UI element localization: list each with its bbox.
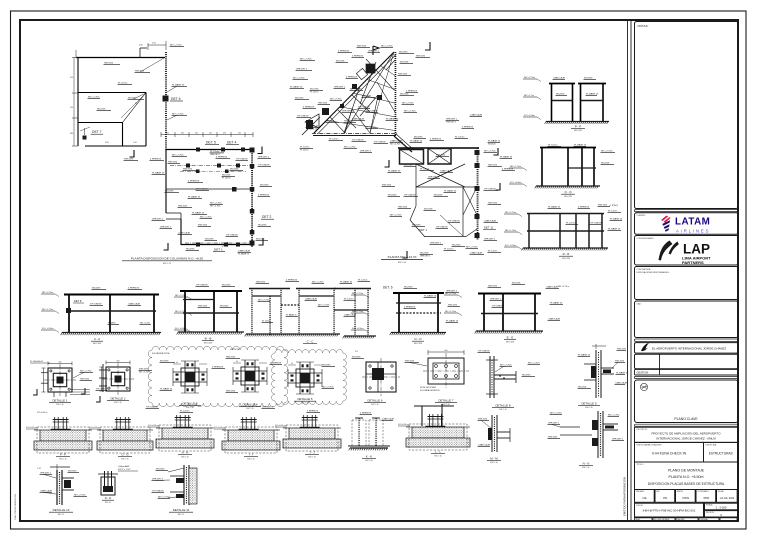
foundation section I - I anchor bolts [242,417,244,430]
L-L extra posts [421,406,423,426]
notas box bottom double rule [635,210,739,212]
aeropuerto strip double rule [635,339,739,341]
svg-text:N.O.-0.50 m: N.O.-0.50 m [26,427,37,429]
svg-text:LATAM: LATAM [675,217,710,228]
svg-text:SECCION: SECCION [562,258,570,260]
svg-text:60: 60 [291,363,293,365]
detail DETALLE 5 flange bolts [291,375,294,377]
foundation section H - H hatch [156,427,162,429]
svg-text:2-4: 2-4 [355,351,358,353]
detail DETALLE 3 flange bolts [176,374,179,376]
svg-text:ORIGINAL:: ORIGINAL: [700,518,709,521]
svg-text:A - A: A - A [94,337,100,341]
section A-A middle row [41,287,161,345]
plan2 lower boundary polygon [410,206,416,220]
detail DETALLE 4 small dims [233,362,241,364]
svg-text:NIV +2.70 m: NIV +2.70 m [558,286,570,288]
svg-text:ESC 1:10: ESC 1:10 [59,458,66,460]
svg-text:REV:: REV: [656,491,660,493]
section B - B ground hatch [178,331,244,333]
section B - B top beam [180,290,242,292]
section A - A ground hatch [62,332,161,334]
foundation section F - F hatch [34,429,40,431]
plan1 DET 6 column and label [163,96,169,102]
svg-text:C/ANCLAJE: C/ANCLAJE [484,219,497,222]
svg-text:L - L: L - L [435,450,441,454]
svg-text:PL.BASE 25: PL.BASE 25 [500,155,513,158]
revision cloud around detalle 3 and 4 [148,346,288,406]
foundation section J - J anchor bolts [303,415,305,428]
svg-text:ESC 1:10: ESC 1:10 [121,458,128,460]
svg-text:ESC 1:10: ESC 1:10 [365,460,372,462]
svg-text:NIV +2.70m: NIV +2.70m [42,292,53,294]
detalle 7 large plate [405,350,470,406]
svg-text:DETALLE 10: DETALLE 10 [53,508,70,512]
svg-text:M - M: M - M [490,457,498,461]
plan1 columns along top edge [196,148,200,152]
plan2 truss parallel joists [381,66,396,76]
svg-text:SECCION: SECCION [414,343,423,345]
detalle 1 grid lines [41,372,48,374]
svg-text:N.O.-0.50 m: N.O.-0.50 m [398,424,409,426]
svg-text:PL.BASE 25: PL.BASE 25 [160,387,173,390]
plan2 section flags [425,42,430,50]
detalle 11 wall connection [152,465,198,516]
svg-text:P - P: P - P [575,125,581,129]
foundation section H - H anchor bolts [176,415,178,428]
svg-text:DET 4: DET 4 [227,141,236,145]
svg-text:NIL: NIL [643,496,648,500]
svg-text:N.O. -0.50m: N.O. -0.50m [352,328,364,330]
svg-text:SECCION: SECCION [564,196,572,198]
plan1 hatched column line right [165,52,167,53]
svg-text:DET 7: DET 7 [92,130,102,134]
plan1 dashdot bottom line [185,242,250,244]
svg-text:450: 450 [223,133,226,135]
foundation section L - L base plate [425,426,445,428]
svg-text:DETALLE 2: DETALLE 2 [110,397,125,401]
svg-text:SECCION: SECCION [574,130,582,132]
cad box [635,301,739,338]
svg-text:PL.BASE 25: PL.BASE 25 [410,139,423,142]
svg-text:450: 450 [195,133,198,135]
notas box [635,22,739,209]
detail DETALLE 1 dimensions [48,363,72,365]
svg-text:NIV +2.70m: NIV +2.70m [139,371,150,373]
detail DETALLE 3 small dims [173,363,181,365]
svg-text:NIV +1.70m: NIV +1.70m [510,166,521,168]
title block left double line [627,20,629,521]
foundation section L - L anchor bolts [428,414,430,427]
plan view planta disposicion de columnas N.O. +8.50 [70,41,274,265]
svg-text:NOTA: VER PLANO: NOTA: VER PLANO [420,386,437,389]
svg-text:PL.BASE 25: PL.BASE 25 [446,319,459,322]
contratista box [635,267,739,300]
svg-text:G - G: G - G [121,453,129,457]
detalle 8 beam elevation [478,350,541,411]
foundation section H - H concrete block [162,428,208,439]
svg-text:1 : 3 000: 1 : 3 000 [716,506,727,510]
plan1 columns along bottom [196,243,200,247]
section E - E ground hatch [476,330,543,332]
foundation section L - L dashed footing outline [409,424,467,450]
svg-text:ESC 1:10: ESC 1:10 [186,407,193,409]
svg-text:NIV +1.70m: NIV +1.70m [42,309,53,311]
detalle 2 [96,361,153,405]
detail DETALLE 4 cruciform plate [245,371,255,381]
svg-text:DET 6: DET 6 [171,97,181,101]
svg-text:D - D: D - D [105,496,112,500]
detalle 9 column connection [578,344,628,409]
svg-text:DFW: DFW [683,496,690,500]
svg-text:N.O. -0.50m: N.O. -0.50m [42,328,54,330]
svg-text:VER DET.1: VER DET.1 [420,255,430,257]
svg-text:DETALLE 4: DETALLE 4 [242,403,257,407]
svg-text:NOTAS:: NOTAS: [638,24,649,28]
plan1 lower rectangle top dimension row [161,134,253,136]
svg-text:450: 450 [238,133,241,135]
svg-text:GSA-TODOS DERECHOS: GSA-TODOS DERECHOS [14,493,17,520]
foundation section L - L concrete block [412,427,464,438]
plan1 interior line 2 [166,188,252,190]
svg-text:ESC 1:10: ESC 1:10 [490,462,497,464]
plan2 truss node gussets [366,64,375,73]
plan1 north/section flags [130,150,135,157]
plan1 top dimension ticks [75,50,77,58]
svg-text:60: 60 [236,361,238,363]
foundation section I - I base plate [239,429,259,431]
svg-text:C/ANCLAJE: C/ANCLAJE [382,417,395,420]
detalle 1 flags [33,389,37,395]
svg-text:C/ANCLAJE: C/ANCLAJE [478,443,491,446]
foundation section G - G hatch [97,429,103,431]
foundation section J - J hatch [283,427,289,429]
detail DETALLE 1 center lines [44,379,76,381]
aeropuerto internacional strip [635,343,739,354]
svg-text:B - B: B - B [205,337,212,341]
svg-text:PROYECTO:: PROYECTO: [637,429,649,431]
svg-text:VER NOTA 3: VER NOTA 3 [230,348,240,351]
plan2 north flag top [373,46,379,55]
section A - A top beam [64,294,159,296]
section B-B hatched right column [236,292,238,293]
plan2 columns on right wall [475,150,480,155]
svg-text:24.JUL.2024: 24.JUL.2024 [720,497,735,500]
svg-text:PL.BASE 25: PL.BASE 25 [238,252,250,255]
svg-text:+2 (PISO): +2 (PISO) [609,205,618,207]
svg-text:AIRLINES: AIRLINES [676,228,710,233]
foundation section H - H dashed footing outline [159,425,211,451]
revision box [705,511,739,517]
svg-text:ESC 1:10: ESC 1:10 [371,404,378,406]
svg-text:NIV +1.70m: NIV +1.70m [445,311,456,313]
firmas row [635,490,655,503]
svg-text:DETALLE 7: DETALLE 7 [438,399,453,403]
foundation section F - F base plate [51,429,71,431]
svg-text:PARTNERS: PARTNERS [682,260,704,265]
section D - D columns [398,293,400,333]
svg-text:ESC 1:5: ESC 1:5 [105,502,111,504]
svg-text:280: 280 [70,133,73,135]
plan2 left corner dark node [322,108,329,115]
detail DETALLE 4 flange bolts [236,373,239,375]
svg-text:C/ANCLAJE: C/ANCLAJE [440,169,453,172]
concesionario box with LAP logo [635,236,739,266]
svg-text:PL.BASE 25: PL.BASE 25 [574,143,587,146]
detail DETALLE 3 cruciform plate [185,372,195,382]
svg-text:PLANTA DISPOSICION DE COLUMNAS: PLANTA DISPOSICION DE COLUMNAS N.O. +8.5… [131,256,204,260]
detail DETALLE 5 small dims [288,364,296,366]
svg-text:PROYECTO DE AMPLIACIÓN DEL AER: PROYECTO DE AMPLIACIÓN DEL AEROPUERTO [651,431,721,436]
svg-text:LAP: LAP [683,242,710,257]
svg-text:VER DET.1: VER DET.1 [210,154,220,156]
plano clave double rule [635,376,739,378]
codigo plano row [635,503,704,517]
section B - B columns [184,291,186,332]
svg-text:FECHA:: FECHA: [718,490,725,493]
svg-text:DETALLE 5: DETALLE 5 [297,397,312,401]
detalle 4 [226,348,283,410]
foundation detail H-H [148,410,214,458]
svg-text:PL.BASE 25: PL.BASE 25 [444,189,457,192]
svg-text:DETALLE 1: DETALLE 1 [52,399,67,403]
svg-text:ESC 1:10: ESC 1:10 [114,402,121,404]
svg-text:DETALLE 9: DETALLE 9 [581,402,596,406]
svg-text:H - H: H - H [182,451,189,455]
plan2 truss tilted gusset 2 [356,68,367,79]
svg-text:NIV +2.70m: NIV +2.70m [445,293,456,295]
foundation detail K-K twin columns [348,412,395,462]
detalle 2 flag [96,396,100,402]
svg-text:ESC 1:10: ESC 1:10 [308,456,315,458]
section A - A columns [68,295,70,333]
svg-text:C/ANCLAJE: C/ANCLAJE [546,285,559,288]
svg-text:ESC 1:10: ESC 1:10 [56,404,63,406]
bottom mini row [635,518,653,521]
svg-text:NIV +1.70m: NIV +1.70m [505,230,516,232]
detail DETALLE 2 dimensions [106,362,130,364]
detail DETALLE 5 cruciform plate [300,373,310,383]
section A - A mid beam [67,310,156,312]
svg-text:NIV +2.70m: NIV +2.70m [524,77,535,79]
svg-text:DIBUJADO:: DIBUJADO: [636,490,646,493]
svg-text:GESTION:: GESTION: [637,371,650,375]
svg-text:C/ANCLAJE: C/ANCLAJE [344,313,357,316]
svg-text:DET 8: DET 8 [74,299,82,303]
svg-text:SOLDADURA TIPICA: SOLDADURA TIPICA [152,352,170,355]
svg-text:COORDINADO:: COORDINADO: [697,490,710,493]
svg-text:D - D: D - D [415,337,423,341]
svg-text:INTERNACIONAL JORGE CHÁVEZ - I: INTERNACIONAL JORGE CHÁVEZ - IIMLM [656,437,716,441]
svg-text:NIV +2.70m: NIV +2.70m [210,205,221,207]
plan1 upper outline walls [76,57,165,59]
detalle 5 [288,362,335,405]
plan1 diagonal wall [123,93,147,123]
svg-text:60: 60 [176,362,178,364]
svg-text:PL.BASE 25: PL.BASE 25 [386,117,399,120]
svg-text:C/ANCLAJE: C/ANCLAJE [352,117,365,120]
section A-A hatched right column [153,295,155,296]
svg-text:PL.BASE 25: PL.BASE 25 [172,83,185,86]
foundation section F - F anchor bolts [54,417,56,430]
svg-text:W12X26: W12X26 [488,143,496,145]
svg-text:4.00: 4.00 [105,142,109,144]
svg-text:NIV +1.70m: NIV +1.70m [352,311,363,313]
section Q-Q frame right column [509,143,615,197]
svg-text:NIV +2.70m: NIV +2.70m [505,212,516,214]
cliente box with LATAM logo [635,213,739,235]
detalle 6 [352,351,401,406]
detalle 1 notes [70,389,90,391]
paquete and disciplina row [635,442,704,462]
plan2 braced area top edge [398,147,479,149]
svg-text:C/ANCLAJE: C/ANCLAJE [128,302,141,305]
foundation section F - F concrete block [40,430,86,441]
svg-text:C/ANCLAJE: C/ANCLAJE [615,381,628,384]
svg-text:PD: PD [663,496,667,500]
svg-text:FASE:: FASE: [636,518,641,521]
svg-text:IH04-B-PTN-I-P08-INC-00-HPM-EI: IH04-B-PTN-I-P08-INC-00-HPM-EIC-001 [643,509,696,513]
section C-C multi-bay middle row [245,279,393,343]
svg-text:PL.BASE 25: PL.BASE 25 [388,169,401,172]
plan2 truss zigzag web lower [330,117,345,133]
foundation detail I-I [214,417,280,460]
svg-text:C/ANCLAJE: C/ANCLAJE [40,489,53,492]
svg-text:600: 600 [445,350,448,352]
svg-text:DETALLE 11: DETALLE 11 [173,508,190,512]
svg-text:CODIGO:: CODIGO: [636,505,644,507]
svg-text:DET. 5: DET. 5 [206,141,216,145]
svg-text:PL.BASE 25: PL.BASE 25 [616,371,629,374]
plan1 columns along right wall [250,164,255,169]
plan2 dark panel 1 [400,150,424,165]
svg-text:310: 310 [70,77,73,79]
svg-text:APROB:: APROB: [677,490,684,493]
section E - E mid beam [481,313,538,315]
proyecto box [635,424,739,426]
section D - D ground hatch [391,332,446,334]
LAP logo slash icon [659,241,673,261]
svg-text:ESC 1:10: ESC 1:10 [434,455,441,457]
svg-text:DET 2: DET 2 [262,215,271,219]
svg-text:N.O.-0.50 m: N.O.-0.50 m [214,427,225,429]
svg-text:450: 450 [59,362,62,364]
plan2 dark panel 2 with X [428,149,451,165]
svg-text:CAD:: CAD: [637,303,642,306]
svg-text:PL.BASE 25: PL.BASE 25 [306,127,318,130]
svg-text:DET 1: DET 1 [214,248,223,252]
svg-text:ESPECIALISTAS RESPONSABLES:: ESPECIALISTAS RESPONSABLES: [637,271,670,274]
foundation section I - I concrete block [228,430,274,441]
svg-text:J - J: J - J [309,451,315,455]
svg-text:450: 450 [117,361,120,363]
svg-text:ESC 1:50: ESC 1:50 [398,262,406,264]
plan2 interior X braces [416,164,465,187]
svg-text:ESC 1:10: ESC 1:10 [582,467,589,469]
svg-text:C/ANCLAJE: C/ANCLAJE [470,113,483,116]
detalle 1 [30,361,93,406]
section D - D top beam [393,292,444,294]
svg-text:DET. 6: DET. 6 [383,286,393,290]
foundation section J - J concrete block [289,428,335,439]
plano clave scribble icon [640,383,647,390]
plan2 truss bottom chord dashdot [312,133,397,135]
svg-text:C/ANCLAJE: C/ANCLAJE [553,76,566,79]
escala box [705,503,739,510]
foundation section F - F dashed footing outline [37,427,89,453]
svg-text:K - K: K - K [366,455,372,459]
svg-text:N.O.-0.50 m: N.O.-0.50 m [275,425,286,427]
svg-text:PLANO DE MONTAJE: PLANO DE MONTAJE [668,469,705,473]
svg-text:NO. REV. DE PAGS:: NO. REV. DE PAGS: [654,518,670,521]
svg-text:DETALLE 6: DETALLE 6 [367,399,382,403]
svg-text:II-04 KUNA CHECK IN: II-04 KUNA CHECK IN [652,452,687,456]
svg-text:Ø 1/2" x 1 1/2": Ø 1/2" x 1 1/2" [118,469,131,471]
svg-text:N.O.-0.50m: N.O.-0.50m [524,115,535,117]
plan2 truss inner members fan [344,52,394,133]
detalle 3 [152,352,225,409]
svg-text:450: 450 [166,133,169,135]
svg-text:PL.500x500x25: PL.500x500x25 [30,361,43,363]
svg-text:ESC 1:75: ESC 1:75 [163,263,171,265]
svg-text:XPD: XPD [703,496,709,500]
plan1 lower rectangle outline [166,149,253,151]
svg-text:NIV +2.70m: NIV +2.70m [390,143,401,145]
svg-text:PL.BASE 25: PL.BASE 25 [578,353,591,356]
svg-text:45°: 45° [135,103,138,105]
svg-text:SECCION: SECCION [204,342,213,344]
foundation detail N-N connection [548,411,625,469]
svg-text:ESC 1:10: ESC 1:10 [585,407,592,409]
foundation section I - I dashed footing outline [225,427,277,453]
svg-text:E - E: E - E [507,336,514,340]
svg-text:ESC 1:10: ESC 1:10 [181,456,188,458]
svg-text:REVISION:: REVISION: [706,512,715,514]
titulo plano box [635,462,739,490]
svg-text:SECCION: SECCION [506,341,515,343]
svg-text:1.50: 1.50 [133,142,137,144]
svg-text:ESC 1:10: ESC 1:10 [246,408,253,410]
svg-text:E-02 PARA UBICACION: E-02 PARA UBICACION [420,389,440,392]
svg-text:DET 1: DET 1 [419,228,427,232]
aeropuerto strip logo [641,343,649,351]
svg-text:N.O. -0.50m: N.O. -0.50m [510,182,522,184]
plan2 lower diagonals [463,187,477,215]
svg-text:DISPOSICION PLACAS BASES DE ES: DISPOSICION PLACAS BASES DE ESTRUCTURA [648,482,725,486]
svg-text:ESC 1:10: ESC 1:10 [247,458,254,460]
svg-text:EDIFICIO/AREA Y PAQUETE:: EDIFICIO/AREA Y PAQUETE: [637,444,663,447]
plan2 connector diagonal [394,136,412,152]
detalle 10 column base elevation [37,464,87,516]
detail DETALLE 2 center lines [102,378,134,380]
svg-text:PLANTA N.O. +8.50m: PLANTA N.O. +8.50m [669,475,704,479]
svg-text:DETALLE 3: DETALLE 3 [182,402,197,406]
svg-text:450: 450 [181,133,184,135]
detalle D-D u-bolt [98,465,138,504]
svg-text:NIV +1.7m: NIV +1.7m [524,95,534,97]
detail DETALLE 1 base plate [48,368,72,392]
svg-text:C/ANCLAJE: C/ANCLAJE [390,139,403,142]
svg-text:1.14: 1.14 [37,468,41,470]
svg-text:PL.BASE 25: PL.BASE 25 [306,124,319,127]
plan1 interior dashdot line with columns [170,165,250,167]
svg-text:SECCION: SECCION [93,343,102,345]
svg-text:Q - Q: Q - Q [564,190,572,194]
svg-text:CAD REF:: CAD REF: [677,518,685,521]
foundation section J - J base plate [300,427,320,429]
svg-text:F - F: F - F [60,453,66,457]
svg-text:CLIENTE:: CLIENTE: [637,215,646,217]
